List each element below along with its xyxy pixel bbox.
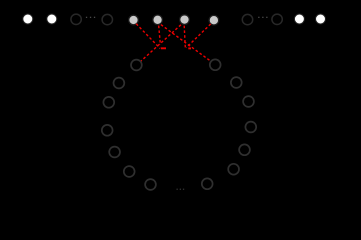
node outline O3 (242, 14, 252, 24)
red dashed arrow G2 to ring-right R1 (161, 25, 211, 62)
node white W3 (294, 14, 304, 24)
red dashed arrow G3 vertical (184, 26, 185, 48)
ring node L7 (145, 179, 156, 190)
red dashed arrow G1 to mid-air (136, 24, 160, 49)
node gray G4 (209, 15, 219, 25)
ellipsis dots top-left (86, 17, 95, 18)
red dashed arrow G4 to mid-air (186, 24, 210, 48)
node outline O4 (272, 14, 282, 24)
ellipsis dots ring bottom (177, 189, 185, 190)
ring node R3 (243, 96, 254, 107)
ring node L5 (109, 147, 120, 158)
red dashed arrow G3 to ring-left L1 (141, 25, 181, 62)
arrowhead dash of G4 line (188, 47, 191, 49)
ring node R5 (239, 144, 250, 155)
ring node L2 (114, 78, 125, 89)
ring node L1 (131, 60, 142, 71)
node gray G2 (153, 15, 163, 25)
ring node R1 (210, 59, 221, 70)
node outline O2 (102, 14, 112, 24)
ring node L6 (124, 166, 135, 177)
node outline O1 (71, 14, 81, 24)
node white W2 (47, 14, 57, 24)
ring node R4 (245, 122, 256, 133)
ring node L4 (102, 125, 113, 136)
ring node L3 (103, 97, 114, 108)
ring node R6 (228, 164, 239, 175)
ellipsis dots top-right (258, 17, 267, 18)
ring node R2 (231, 77, 242, 88)
ring node R7 (202, 178, 213, 189)
node white W4 (316, 14, 326, 24)
node gray G1 (129, 15, 139, 25)
node gray G3 (180, 15, 190, 25)
node white W1 (top row, filled) (23, 14, 33, 24)
arrowhead dash of G1 line (161, 47, 166, 49)
red dashed arrow G2 vertical (159, 26, 161, 45)
